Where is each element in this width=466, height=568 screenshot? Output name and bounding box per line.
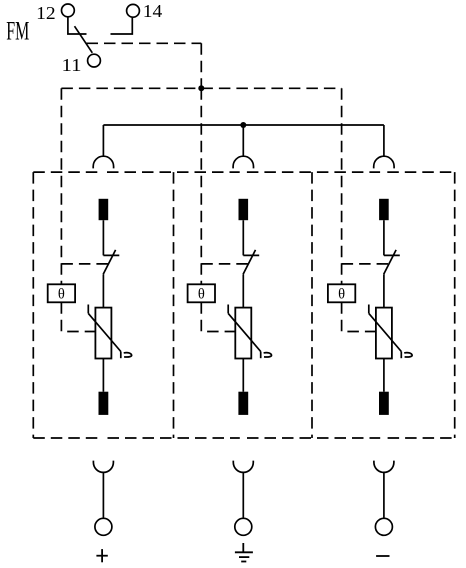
svg-text:12: 12 bbox=[36, 3, 56, 23]
label - terminal bbox=[376, 555, 389, 557]
plug-in socket arc (bottom) module 3 bbox=[374, 461, 394, 473]
plug-in socket arc (bottom) module 1 bbox=[93, 461, 113, 473]
wire dashed link bus bbox=[61, 87, 341, 89]
terminal contact bar (bottom) module 3 bbox=[379, 392, 389, 415]
wire bbox=[383, 274, 385, 307]
terminal circle module 1 bbox=[95, 518, 112, 535]
terminal contact bar (bottom) module 1 bbox=[99, 392, 109, 415]
wire dashed link branch to disconnector switch 2 bbox=[201, 263, 249, 265]
wire bus drop module 3 bbox=[383, 125, 385, 157]
varistor RV1 bbox=[95, 308, 111, 359]
wire bbox=[383, 220, 385, 255]
node junction dot on dashed link bus bbox=[198, 85, 204, 91]
terminal circle module 3 bbox=[375, 518, 392, 535]
terminal circle module 2 bbox=[235, 518, 252, 535]
terminal contact bar (bottom) module 2 bbox=[238, 392, 248, 415]
changeover contact blade 11-12 bbox=[75, 26, 93, 53]
wire dashed link from thermal sensor 2 to varistor RV2 bbox=[201, 302, 235, 331]
plug-in socket arc (top) module 3 bbox=[374, 156, 394, 168]
varistor RV2 bbox=[235, 308, 251, 359]
wire bbox=[242, 274, 244, 307]
wire bbox=[242, 359, 244, 392]
node junction dot on common bus bbox=[240, 122, 246, 128]
terminal 14 bbox=[127, 4, 140, 17]
plug-in socket arc (top) module 2 bbox=[233, 156, 253, 168]
varistor U voltage mark 3 bbox=[404, 353, 412, 357]
enclosure dashed box bottom edge bbox=[33, 437, 100, 439]
svg-text:θ: θ bbox=[338, 287, 345, 303]
wire dashed link from thermal sensor 1 to varistor RV1 bbox=[61, 302, 95, 331]
module divider dashed 2-3 bbox=[311, 172, 313, 438]
wire bbox=[383, 359, 385, 392]
terminal 12 bbox=[62, 4, 75, 17]
wire dashed link branch to disconnector switch 1 bbox=[61, 263, 109, 265]
svg-text:θ: θ bbox=[198, 287, 205, 303]
wire bbox=[102, 220, 104, 255]
wire bbox=[383, 472, 385, 517]
varistor U voltage mark 1 bbox=[124, 353, 132, 357]
enclosure dashed box right edge bbox=[454, 172, 456, 438]
enclosure dashed box top edge bbox=[33, 171, 100, 173]
label + terminal bbox=[96, 555, 107, 557]
thermal disconnector switch 3 bbox=[384, 254, 400, 256]
wire contact 14 stub bbox=[111, 18, 133, 34]
wire bbox=[102, 274, 104, 307]
enclosure dashed box left edge bbox=[32, 172, 34, 438]
thermal sensor theta 3 bbox=[328, 284, 355, 302]
wire bus drop module 1 bbox=[102, 125, 104, 157]
svg-text:θ: θ bbox=[58, 287, 65, 303]
varistor RV3 bbox=[376, 308, 392, 359]
wire bus drop module 2 bbox=[242, 125, 244, 157]
wire bbox=[242, 472, 244, 517]
terminal 11 bbox=[88, 54, 101, 67]
wire bbox=[242, 220, 244, 255]
plug-in socket arc (top) module 1 bbox=[93, 156, 113, 168]
terminal contact bar (top) module 1 bbox=[99, 199, 109, 220]
thermal sensor theta 2 bbox=[188, 284, 215, 302]
plug-in socket arc (bottom) module 2 bbox=[233, 461, 253, 473]
wire bbox=[102, 359, 104, 392]
wire common bus bbox=[103, 124, 384, 126]
svg-text:11: 11 bbox=[62, 55, 82, 75]
ground symbol bbox=[242, 543, 244, 552]
thermal disconnector switch 1 bbox=[103, 254, 119, 256]
wire dashed link from thermal sensor 3 to varistor RV3 bbox=[342, 302, 376, 331]
svg-text:FM: FM bbox=[6, 17, 29, 46]
varistor U voltage mark 2 bbox=[264, 353, 272, 357]
wire dashed link branch to disconnector switch 3 bbox=[342, 263, 390, 265]
terminal contact bar (top) module 3 bbox=[379, 199, 389, 220]
thermal sensor theta 1 bbox=[48, 284, 75, 302]
thermal disconnector switch 2 bbox=[243, 254, 259, 256]
wire dashed mechanical link to thermal disconnector 2 bbox=[200, 88, 202, 284]
svg-text:14: 14 bbox=[143, 1, 163, 21]
wire dashed mechanical link to thermal disconnector 1 bbox=[60, 88, 62, 284]
terminal contact bar (top) module 2 bbox=[239, 199, 249, 220]
wire bbox=[102, 472, 104, 517]
module divider dashed 1-2 bbox=[173, 172, 175, 438]
wire dashed signal link from contact to junction bbox=[87, 42, 202, 44]
wire dashed mechanical link to thermal disconnector 3 bbox=[341, 88, 343, 284]
wire contact 12 stub bbox=[68, 17, 87, 34]
